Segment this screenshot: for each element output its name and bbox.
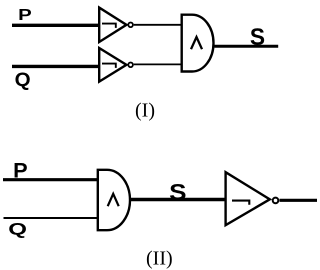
- input label P (circuit II): [13, 160, 27, 183]
- svg-text:S: S: [250, 25, 265, 51]
- wire: U1 output to AND gate U3 top input: [134, 24, 181, 26]
- conjunction symbol inside U4: [108, 194, 119, 206]
- svg-text:P: P: [18, 7, 32, 24]
- output wire of U3 (node S, circuit I): [215, 45, 279, 48]
- inversion bubble of U2: [128, 63, 133, 68]
- input label Q (circuit II): [8, 219, 27, 238]
- svg-text:(I): (I): [135, 100, 155, 122]
- inversion bubble of U5: [273, 198, 279, 204]
- wire: input P to inverter U1: [12, 24, 100, 27]
- caption (I): [135, 100, 155, 122]
- AND gate U4 (circuit II): [98, 170, 130, 230]
- inverter U5 (NOT gate, circuit II): [226, 172, 270, 225]
- wire: input Q to inverter U2: [12, 65, 100, 68]
- output wire of U5 (circuit II): [280, 199, 318, 202]
- svg-text:S: S: [169, 179, 186, 205]
- negation symbol inside inverter U2: [102, 64, 116, 68]
- inverter U2 (NOT gate, input Q): [99, 48, 126, 82]
- wire: U2 output to AND gate U3 bottom input: [134, 63, 181, 65]
- negation symbol inside inverter U5: [232, 201, 249, 205]
- wire: input P to AND gate U4: [3, 178, 98, 181]
- input label Q (circuit I): [15, 69, 31, 91]
- conjunction symbol inside U3: [191, 37, 202, 49]
- negation symbol inside inverter U1: [102, 24, 116, 28]
- output label S (circuit I): [250, 25, 265, 51]
- inverter U1 (NOT gate, input P): [99, 8, 126, 42]
- node label S (circuit II): [169, 179, 186, 205]
- svg-text:(II): (II): [146, 248, 173, 270]
- caption (II): [146, 248, 173, 270]
- wire: U4 output (node S) to inverter U5: [131, 198, 227, 201]
- input label P (circuit I): [18, 7, 32, 24]
- svg-text:Q: Q: [15, 69, 31, 91]
- AND gate U3 (circuit I): [182, 15, 214, 72]
- inversion bubble of U1: [128, 23, 133, 28]
- svg-text:Q: Q: [8, 219, 27, 238]
- wire: input Q to AND gate U4: [4, 217, 99, 219]
